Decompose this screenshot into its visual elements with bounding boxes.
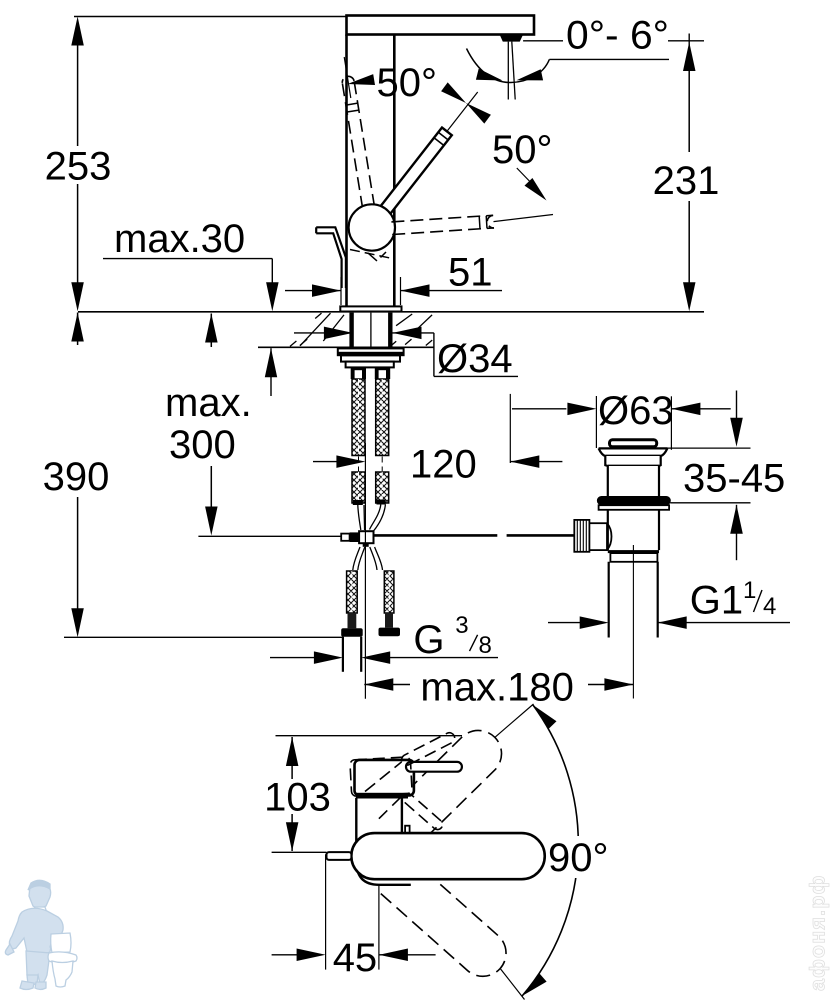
- pop-up drain: lift knob cap: [610, 440, 657, 447]
- bottom reference line of 390: [64, 636, 343, 638]
- hatching of counter section: [300, 313, 331, 346]
- thin extension line of lever A: [344, 57, 351, 98]
- svg-text:253: 253: [45, 145, 112, 189]
- svg-text:50°: 50°: [492, 128, 553, 172]
- svg-text:45: 45: [333, 936, 378, 980]
- threaded shank through counter: [349, 313, 353, 347]
- dimension Ø63: [595, 396, 597, 448]
- dimension 103: [276, 735, 463, 737]
- svg-text:3: 3: [455, 612, 468, 639]
- svg-text:G1: G1: [690, 579, 743, 623]
- svg-text:231: 231: [653, 159, 720, 203]
- dashed spout position down 45 deg: [381, 859, 506, 976]
- svg-text:max.180: max.180: [420, 665, 573, 709]
- G3/8 threaded tails: [347, 571, 358, 613]
- svg-text:120: 120: [410, 443, 477, 487]
- svg-text:300: 300: [169, 423, 236, 467]
- svg-text:50°: 50°: [377, 61, 438, 105]
- extension line from upper dashed spout: [495, 704, 534, 737]
- dimension Ø34: [294, 332, 353, 334]
- dashed diagonal through handle block: [365, 762, 402, 792]
- dimension G 3/8: [270, 657, 315, 659]
- centreline stubs in hose break: [358, 457, 360, 472]
- spout tip nub: [327, 852, 352, 860]
- svg-text:0°- 6°: 0°- 6°: [566, 14, 669, 58]
- arc for 0-6 deg swing: [467, 49, 550, 83]
- leader and arrowhead to lever B line: [517, 168, 539, 191]
- svg-text:Ø34: Ø34: [437, 337, 513, 381]
- lower ring: [610, 553, 657, 562]
- drain centreline: [632, 545, 634, 699]
- dimension 120: [313, 461, 337, 463]
- handle bar (top view): [406, 762, 462, 772]
- dashed lever A (50 deg up-left position): [354, 81, 374, 207]
- dimension G1 1/4: [548, 622, 580, 624]
- dashed detail below pivot: [350, 250, 390, 259]
- thin extension line of lever B: [494, 215, 554, 222]
- knurled adjuster knob: [574, 520, 589, 552]
- black band under handle block: [356, 793, 408, 799]
- bowtie arrowheads on solid lever extension: [441, 82, 466, 103]
- faucet spout top bar: [347, 16, 535, 35]
- arc arrowhead top: [533, 705, 557, 729]
- svg-text:G: G: [413, 618, 444, 662]
- tee connector of pull rod: [341, 534, 349, 541]
- dashed handle bar rotated down: [403, 794, 442, 830]
- dimension 45: [325, 854, 327, 969]
- pull rod to drain: [198, 535, 341, 537]
- svg-text:90°: 90°: [548, 836, 609, 880]
- rubber gasket (black ring): [597, 496, 671, 505]
- svg-text:35-45: 35-45: [683, 457, 785, 501]
- faucet outlet (mousseur): [500, 35, 523, 42]
- svg-text:103: 103: [264, 776, 331, 820]
- svg-text:8: 8: [479, 632, 492, 659]
- extension line from lower dashed spout: [500, 969, 524, 1000]
- svg-text:4: 4: [763, 593, 776, 620]
- faucet body column: [345, 35, 348, 307]
- drain body: [607, 510, 609, 550]
- dimension 390: [71, 313, 84, 342]
- arrowhead right of stream: [517, 69, 544, 80]
- drain upper flange: [599, 447, 668, 449]
- svg-text:max.30: max.30: [114, 217, 245, 261]
- svg-text:390: 390: [43, 455, 110, 499]
- hose tails below tee: [353, 547, 360, 570]
- dimension max.300: [205, 314, 218, 343]
- knob connector piece: [589, 523, 607, 550]
- dashed handle bar rotated up: [402, 733, 455, 765]
- solid lever (50 deg up-right, current position): [376, 128, 452, 221]
- watermark: plumber logo bottom-left: [5, 880, 63, 989]
- dimension 35-45: [736, 391, 738, 420]
- wire: top reference line to spout: [74, 16, 347, 18]
- vertical extension line (hose centre): [364, 443, 366, 699]
- svg-text:Ø63: Ø63: [598, 389, 674, 433]
- svg-text:1: 1: [743, 577, 756, 604]
- white knockout for 90 deg label: [543, 836, 617, 878]
- hose connectors under shank: [351, 367, 366, 379]
- spout stadium (forward position): [351, 833, 544, 879]
- small tab right of body: [405, 826, 410, 833]
- water stream lines 0-6 deg: [507, 42, 509, 100]
- faucet body (top view): [356, 798, 411, 885]
- handle block (top view): [355, 760, 414, 796]
- dimension 253 vertical: [71, 17, 84, 46]
- arc arrowhead bottom: [522, 973, 547, 996]
- thin extension line of solid lever: [447, 92, 478, 131]
- handle hook (side view, lever left position): [316, 227, 346, 288]
- dashed lever B (horizontal right position): [392, 228, 494, 235]
- braided flex hoses (below break): [352, 472, 365, 503]
- svg-text:афоня.рф: афоня.рф: [806, 874, 830, 991]
- hose tubes into tee: [358, 505, 361, 530]
- base plate of column: [340, 306, 401, 311]
- svg-text:max.: max.: [165, 381, 252, 425]
- arrowhead left of stream: [476, 69, 503, 81]
- dashed handle block copy: [350, 757, 412, 797]
- mounting washer stack: [338, 348, 404, 355]
- dimension 231 vertical: [688, 34, 690, 48]
- arrowhead 50 upper-left onto lever A line: [348, 74, 376, 85]
- deck / counter top line: [78, 311, 704, 313]
- pivot ball: [349, 204, 395, 250]
- dark band at drain body bottom: [608, 550, 659, 553]
- svg-text:51: 51: [448, 251, 493, 295]
- tailpipe G1 1/4: [608, 562, 610, 638]
- washer below gasket: [599, 505, 670, 510]
- dimension max.180: [364, 678, 393, 691]
- braided flex hoses (upper): [352, 379, 365, 456]
- wire: 0-6 label leader lines: [523, 40, 563, 42]
- counter bottom line: [258, 346, 434, 348]
- 90 deg swivel arc: [522, 705, 578, 996]
- dashed spout position up 45 deg: [379, 730, 502, 851]
